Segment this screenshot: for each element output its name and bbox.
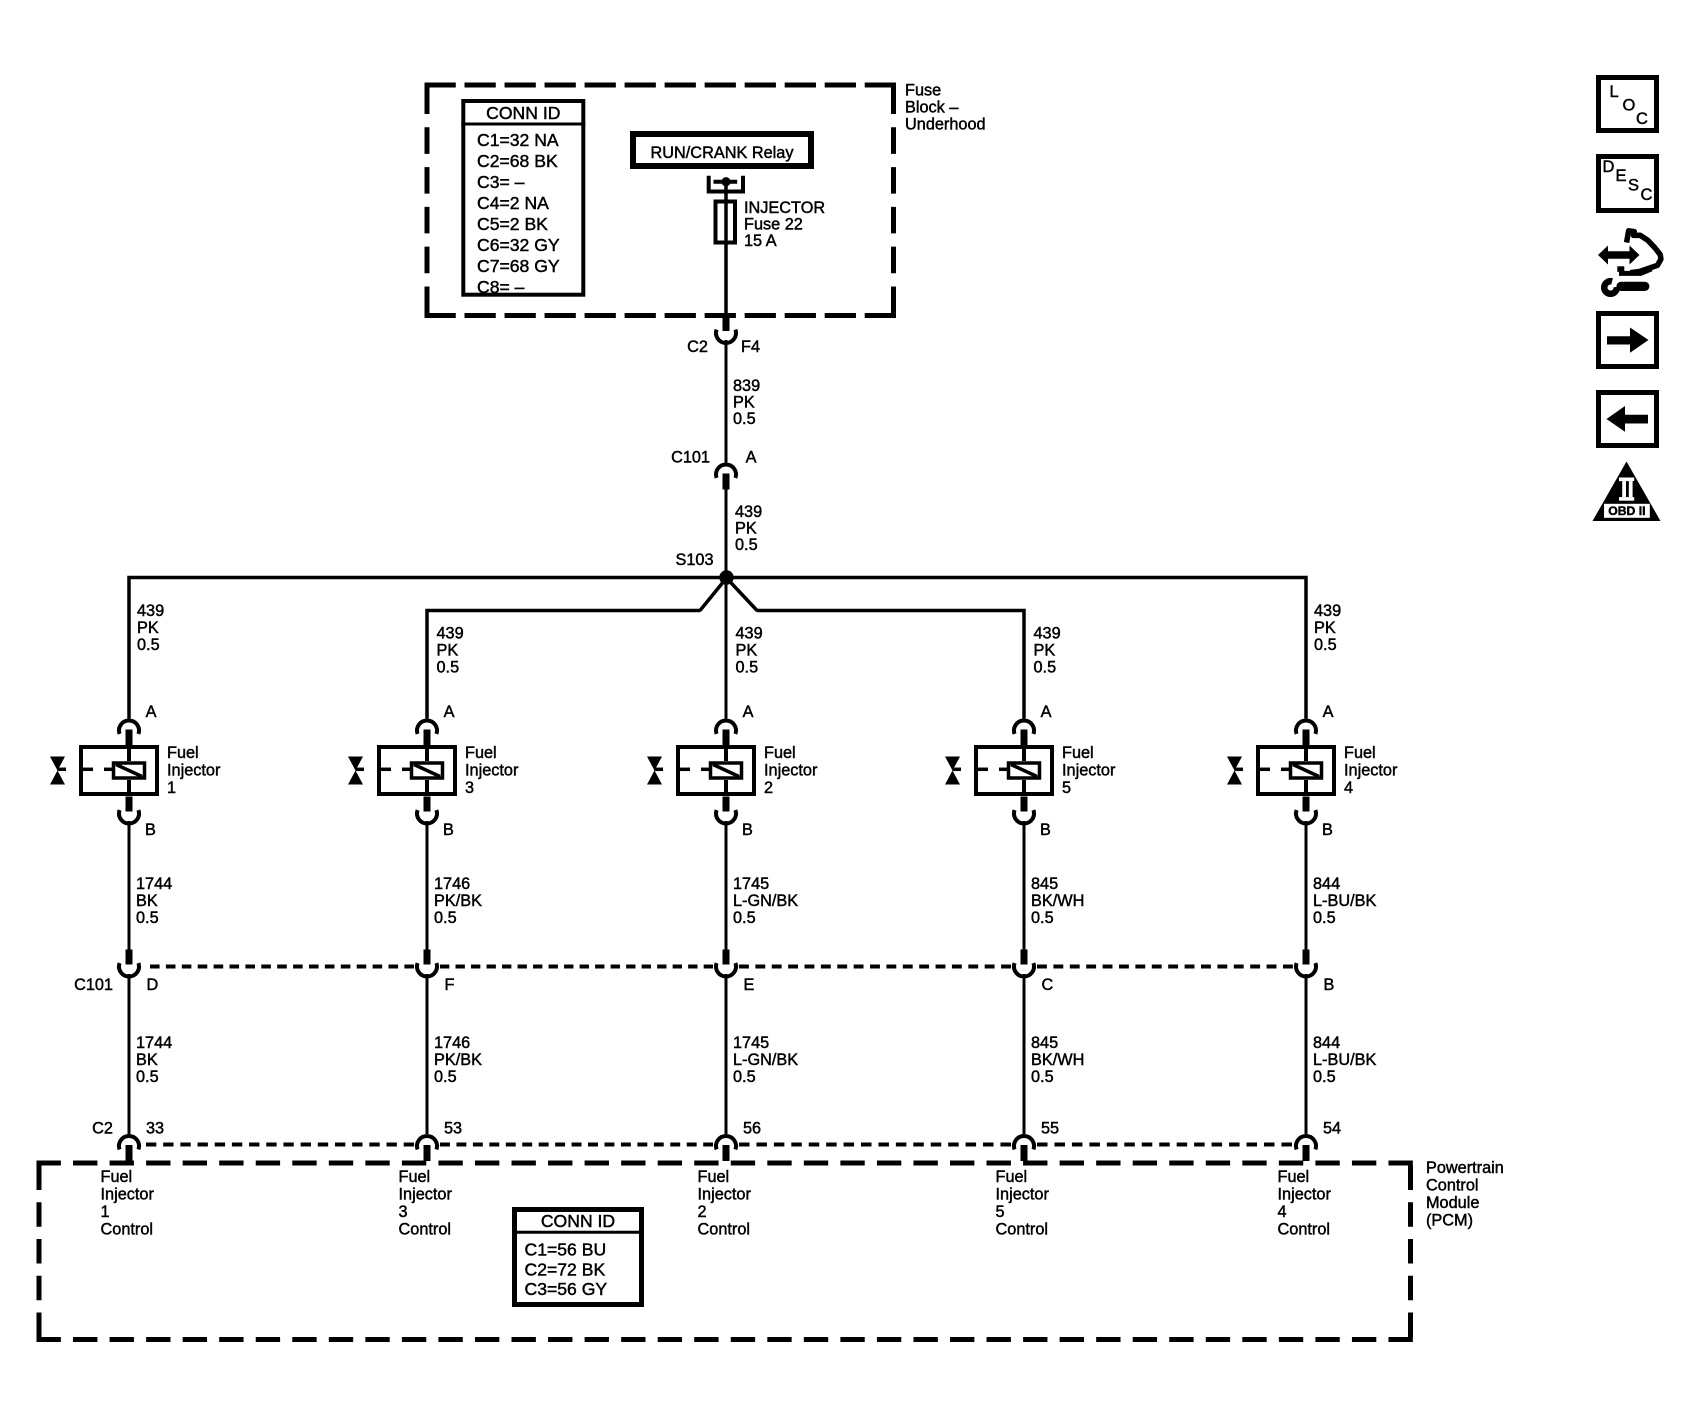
wire label 844 L-BU/BK 0.5 lower [1313,1034,1376,1086]
svg-text:0.5: 0.5 [137,636,160,654]
svg-text:C1=32 NA: C1=32 NA [477,130,559,150]
svg-text:Control: Control [698,1221,751,1239]
svg-text:Injector: Injector [465,762,519,780]
svg-text:439: 439 [137,602,164,620]
svg-text:L: L [1610,83,1619,101]
icon LOC box [1599,78,1657,131]
svg-text:L-GN/BK: L-GN/BK [733,892,798,910]
svg-text:PK: PK [137,619,159,637]
connector C2 pin 53 [417,1136,437,1161]
connector pin A injector 4 [1296,720,1316,745]
svg-text:844: 844 [1313,1034,1340,1052]
label Fuel Injector 3 [465,744,519,797]
PCM CONN ID table [515,1210,642,1305]
fuse block CONN ID table [461,101,585,297]
svg-text:C101: C101 [74,976,113,994]
wire label 439 PK 0.5 col inj5 [1034,625,1061,677]
svg-text:C2: C2 [92,1120,113,1138]
svg-text:C: C [1636,110,1648,128]
svg-text:PK: PK [736,642,758,660]
svg-text:0.5: 0.5 [136,909,159,927]
connector pin A injector 3 [417,720,437,745]
fuel injector 4 body [1258,745,1334,796]
injector 4 valve symbol [1227,757,1242,785]
svg-text:C6=32 GY: C6=32 GY [477,235,560,255]
wire label 844 L-BU/BK 0.5 upper [1313,875,1376,927]
connector C101 pin F [417,950,437,977]
svg-text:INJECTOR: INJECTOR [744,199,825,217]
connector pin B injector 3 [417,797,437,824]
svg-text:C8= –: C8= – [477,277,525,297]
svg-text:1746: 1746 [434,1034,470,1052]
svg-text:Module: Module [1426,1194,1479,1212]
label Fuel Injector 2 [764,744,818,797]
svg-text:439: 439 [735,503,762,521]
wire label 439 PK 0.5 [735,503,762,554]
injector 3 linkage dashes [356,768,411,772]
svg-text:54: 54 [1323,1120,1341,1138]
relay pin bar and dot [714,177,738,186]
svg-text:BK: BK [136,1051,158,1069]
connector pin A injector 5 [1014,720,1034,745]
svg-text:C2: C2 [687,338,708,356]
connector C2 pin 33 [119,1136,139,1161]
label Fuel Injector 2 Control [698,1168,752,1239]
svg-text:0.5: 0.5 [1313,909,1336,927]
svg-text:A: A [746,449,757,467]
svg-text:O: O [1623,97,1636,115]
relay contact bracket [709,176,743,192]
connector C2 pin F4 [716,316,736,343]
fuel injector 2 body [678,745,754,796]
svg-text:C101: C101 [671,449,710,467]
wire label 439 PK 0.5 col inj3 [437,625,464,677]
svg-text:Injector: Injector [399,1186,453,1204]
icon back arrow box [1599,393,1657,446]
svg-text:0.5: 0.5 [1313,1068,1336,1086]
svg-text:BK/WH: BK/WH [1031,892,1084,910]
svg-text:Injector: Injector [698,1186,752,1204]
injector 5 valve symbol [945,757,960,785]
svg-text:A: A [1323,703,1334,721]
svg-text:PK: PK [735,520,757,538]
PCM dashed box [37,1163,1414,1340]
connector pin A injector 1 [119,720,139,745]
svg-text:Fuel: Fuel [465,744,497,762]
label Fuel Injector 5 Control [996,1168,1050,1239]
svg-text:PK: PK [733,394,755,412]
wire label 1745 L-GN/BK 0.5 lower [733,1034,798,1086]
svg-text:OBD II: OBD II [1608,504,1645,518]
svg-text:S103: S103 [675,551,713,569]
svg-text:D: D [1603,158,1615,176]
svg-text:C: C [1042,976,1054,994]
wire 845 BK/WH lower segment [1023,974,1026,1134]
svg-text:E: E [744,976,755,994]
fuse block label [905,82,986,134]
svg-text:Fuel: Fuel [698,1168,730,1186]
svg-text:3: 3 [465,779,474,797]
svg-text:C2=72 BK: C2=72 BK [525,1259,606,1279]
connector pin B injector 1 [119,797,139,824]
svg-text:439: 439 [1034,625,1061,643]
injector 1 linkage dashes [58,768,113,772]
svg-text:Fuel: Fuel [399,1168,431,1186]
connector C101 pin A [716,464,736,489]
svg-text:2: 2 [764,779,773,797]
connector pin B injector 5 [1014,797,1034,824]
wire bus from S103 to outer columns [129,578,1306,719]
svg-text:Fuel: Fuel [1062,744,1094,762]
connector C101 pin C [1014,950,1034,977]
connector pin B injector 2 [716,797,736,824]
wire label 1746 PK/BK 0.5 lower [434,1034,482,1086]
svg-text:439: 439 [736,625,763,643]
wire label 1745 L-GN/BK 0.5 upper [733,875,798,927]
icon DESC box [1599,157,1657,211]
svg-text:Injector: Injector [1344,762,1398,780]
svg-text:0.5: 0.5 [1314,636,1337,654]
svg-text:Control: Control [996,1221,1049,1239]
svg-text:C2=68 BK: C2=68 BK [477,151,558,171]
svg-text:439: 439 [1314,602,1341,620]
svg-text:Powertrain: Powertrain [1426,1159,1504,1177]
svg-text:844: 844 [1313,875,1340,893]
svg-text:C5=2 BK: C5=2 BK [477,214,548,234]
svg-text:CONN ID: CONN ID [541,1211,615,1231]
PCM label [1426,1159,1504,1230]
icon forward arrow box [1599,314,1657,367]
svg-text:0.5: 0.5 [434,1068,457,1086]
svg-text:Control: Control [1278,1221,1331,1239]
wire 1746 PK/BK lower segment [426,974,429,1134]
svg-text:E: E [1616,167,1627,185]
svg-text:Fuel: Fuel [764,744,796,762]
wire to column 2 [427,611,701,719]
svg-text:1745: 1745 [733,1034,769,1052]
label Fuel Injector 3 Control [399,1168,453,1239]
svg-text:A: A [444,703,455,721]
svg-text:C1=56 BU: C1=56 BU [525,1240,607,1260]
svg-text:Fuel: Fuel [167,744,199,762]
svg-text:B: B [742,821,753,839]
wire label 1744 BK 0.5 lower [136,1034,172,1086]
wire label 439 PK 0.5 col inj2 [736,625,763,677]
svg-text:F4: F4 [741,338,760,356]
icon OBD II triangle [1593,462,1661,522]
wire 439 PK 0.5 to S103 [725,488,728,578]
wire diagonal S103 right [727,578,758,611]
svg-text:0.5: 0.5 [733,1068,756,1086]
icon wrench [1604,281,1645,294]
svg-text:1: 1 [101,1203,110,1221]
wire diagonal S103 left [700,578,727,611]
wire from relay to fuse [724,184,728,317]
svg-text:Control: Control [101,1221,154,1239]
svg-text:L-GN/BK: L-GN/BK [733,1051,798,1069]
splice S103 [719,570,733,584]
svg-text:1745: 1745 [733,875,769,893]
svg-text:A: A [1041,703,1052,721]
injector 5 linkage dashes [953,768,1008,772]
wire label 845 BK/WH 0.5 lower [1031,1034,1084,1086]
svg-text:RUN/CRANK Relay: RUN/CRANK Relay [651,144,795,162]
svg-text:B: B [1322,821,1333,839]
wire column 3 down [725,578,728,719]
connector pin B injector 4 [1296,797,1316,824]
svg-text:Block –: Block – [905,99,959,117]
svg-text:0.5: 0.5 [733,909,756,927]
svg-text:L-BU/BK: L-BU/BK [1313,892,1376,910]
connector C2 pin 55 [1014,1136,1034,1161]
svg-text:Fuse: Fuse [905,82,941,100]
wire label 439 PK 0.5 col inj1 [137,602,164,654]
svg-text:C7=68 GY: C7=68 GY [477,256,560,276]
wire label 439 PK 0.5 col inj4 [1314,602,1341,654]
svg-text:C3=56 GY: C3=56 GY [525,1279,608,1299]
connector C101 pin E [716,950,736,977]
svg-text:A: A [743,703,754,721]
svg-text:BK/WH: BK/WH [1031,1051,1084,1069]
svg-text:0.5: 0.5 [1031,1068,1054,1086]
svg-text:B: B [145,821,156,839]
wire 845 BK/WH upper segment [1023,821,1026,950]
wire label 1744 BK 0.5 upper [136,875,172,927]
svg-text:CONN ID: CONN ID [486,103,560,123]
svg-text:0.5: 0.5 [733,410,756,428]
wire 1745 L-GN/BK lower segment [725,974,728,1134]
svg-text:55: 55 [1041,1120,1059,1138]
svg-text:Fuel: Fuel [996,1168,1028,1186]
svg-text:Fuel: Fuel [1344,744,1376,762]
wire label 839 PK 0.5 [733,377,760,428]
svg-text:PK/BK: PK/BK [434,892,482,910]
wire 1744 BK lower segment [128,974,131,1134]
svg-text:C3= –: C3= – [477,172,525,192]
svg-text:1744: 1744 [136,1034,172,1052]
svg-text:1746: 1746 [434,875,470,893]
fuse block underhood dashed box [425,85,897,316]
svg-text:(PCM): (PCM) [1426,1212,1473,1230]
fuse INJECTOR Fuse 22 15 A [716,202,736,243]
fuel injector 1 body [81,745,157,796]
svg-text:S: S [1628,177,1639,195]
label Fuel Injector 4 [1344,744,1398,797]
svg-text:Injector: Injector [996,1186,1050,1204]
svg-text:L-BU/BK: L-BU/BK [1313,1051,1376,1069]
connector C101 pin B [1296,950,1316,977]
label Fuel Injector 5 [1062,744,1116,797]
svg-text:0.5: 0.5 [735,536,758,554]
svg-text:B: B [443,821,454,839]
svg-text:0.5: 0.5 [736,659,759,677]
svg-text:0.5: 0.5 [136,1068,159,1086]
label Fuel Injector 1 [167,744,221,797]
injector 3 valve symbol [348,757,363,785]
relay RUN/CRANK Relay box [633,134,811,166]
svg-text:Injector: Injector [167,762,221,780]
svg-text:5: 5 [1062,779,1071,797]
svg-text:1744: 1744 [136,875,172,893]
svg-text:D: D [147,976,159,994]
connector pin A injector 2 [716,720,736,745]
svg-text:C: C [1641,186,1653,204]
C101 connector dashed line [150,965,1293,969]
svg-text:BK: BK [136,892,158,910]
svg-text:Fuel: Fuel [101,1168,133,1186]
wire label 845 BK/WH 0.5 upper [1031,875,1084,927]
svg-text:0.5: 0.5 [437,659,460,677]
wire 839 PK 0.5 [725,340,728,463]
svg-text:Injector: Injector [101,1186,155,1204]
svg-text:Underhood: Underhood [905,116,986,134]
wire 1744 BK upper segment [128,821,131,950]
injector 4 linkage dashes [1235,768,1290,772]
connector C101 pin D [119,950,139,977]
wire 844 L-BU/BK upper segment [1305,821,1308,950]
svg-text:5: 5 [996,1203,1005,1221]
svg-text:F: F [445,976,455,994]
icon vehicle data link arrow [1598,246,1640,265]
svg-text:Injector: Injector [764,762,818,780]
svg-text:PK/BK: PK/BK [434,1051,482,1069]
wire label 1746 PK/BK 0.5 upper [434,875,482,927]
svg-text:2: 2 [698,1203,707,1221]
wire 1746 PK/BK upper segment [426,821,429,950]
svg-text:Fuse 22: Fuse 22 [744,216,803,234]
svg-text:4: 4 [1344,779,1353,797]
icon vehicle outline [1617,231,1661,274]
svg-text:33: 33 [146,1120,164,1138]
svg-text:4: 4 [1278,1203,1287,1221]
injector 1 valve symbol [50,757,65,785]
fuse label [744,199,825,250]
svg-text:845: 845 [1031,875,1058,893]
svg-text:A: A [146,703,157,721]
svg-text:C4=2 NA: C4=2 NA [477,193,549,213]
wire 1745 L-GN/BK upper segment [725,821,728,950]
svg-text:PK: PK [1314,619,1336,637]
connector C2 pin 56 [716,1136,736,1161]
svg-text:15 A: 15 A [744,232,777,250]
svg-text:0.5: 0.5 [1034,659,1057,677]
svg-text:Injector: Injector [1062,762,1116,780]
svg-text:Injector: Injector [1278,1186,1332,1204]
svg-text:B: B [1324,976,1335,994]
svg-text:56: 56 [743,1120,761,1138]
label Fuel Injector 1 Control [101,1168,155,1239]
svg-text:839: 839 [733,377,760,395]
injector 2 linkage dashes [655,768,710,772]
svg-text:845: 845 [1031,1034,1058,1052]
injector 2 valve symbol [647,757,662,785]
svg-text:Control: Control [399,1221,452,1239]
C2 connector dashed line [146,1143,1292,1147]
svg-text:0.5: 0.5 [1031,909,1054,927]
svg-text:53: 53 [444,1120,462,1138]
svg-text:Fuel: Fuel [1278,1168,1310,1186]
svg-text:439: 439 [437,625,464,643]
fuel injector 5 body [976,745,1052,796]
svg-text:Control: Control [1426,1177,1479,1195]
svg-text:PK: PK [437,642,459,660]
connector C2 pin 54 [1296,1136,1316,1161]
label Fuel Injector 4 Control [1278,1168,1332,1239]
svg-text:B: B [1040,821,1051,839]
svg-text:1: 1 [167,779,176,797]
fuel injector 3 body [379,745,455,796]
svg-text:PK: PK [1034,642,1056,660]
wire to column 4 [757,611,1025,719]
svg-text:3: 3 [399,1203,408,1221]
wire 844 L-BU/BK lower segment [1305,974,1308,1134]
svg-text:0.5: 0.5 [434,909,457,927]
